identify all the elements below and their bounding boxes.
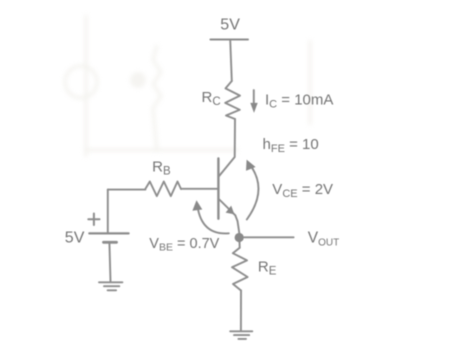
VCE arrowhead bbox=[246, 160, 256, 171]
svg-text:RB: RB bbox=[152, 159, 171, 178]
ghost bleed-through artifacts bbox=[65, 15, 310, 157]
VBE arc arrow bbox=[198, 207, 229, 234]
battery plus sign bbox=[88, 214, 99, 226]
resistor RE bbox=[232, 248, 248, 291]
wire rail to Rc bbox=[230, 40, 232, 82]
emitter arrowhead bbox=[226, 206, 235, 215]
wire Rc to collector bbox=[219, 119, 235, 177]
svg-text:hFE = 10: hFE = 10 bbox=[263, 136, 319, 155]
ground (RE) bbox=[230, 331, 252, 339]
resistor RB bbox=[145, 182, 181, 197]
Ic arrow bbox=[253, 90, 255, 104]
wire node to RE bbox=[239, 242, 241, 248]
svg-text:5V: 5V bbox=[65, 230, 85, 247]
svg-text:VBE = 0.7V: VBE = 0.7V bbox=[149, 236, 219, 254]
node dot bbox=[235, 233, 244, 242]
5V supply rail bbox=[210, 39, 248, 41]
wire emitter to node bbox=[235, 215, 239, 233]
transistor emitter bbox=[219, 200, 235, 216]
svg-text:VOUT: VOUT bbox=[308, 229, 339, 248]
wire base bbox=[108, 189, 146, 191]
svg-text:RE: RE bbox=[258, 259, 277, 278]
svg-text:IC = 10mA: IC = 10mA bbox=[265, 91, 333, 110]
wire RE to ground bbox=[240, 291, 242, 331]
Ic arrowhead bbox=[250, 103, 257, 113]
ground (battery) bbox=[99, 282, 122, 290]
wire RB to base bbox=[181, 188, 218, 190]
VCE arc arrow bbox=[247, 164, 259, 220]
wire battery to ground bbox=[109, 242, 110, 281]
transistor Q1 base bar bbox=[217, 159, 219, 219]
battery V1 plates bbox=[89, 232, 128, 234]
VBE arrowhead bbox=[192, 200, 202, 211]
svg-text:RC: RC bbox=[202, 89, 221, 108]
svg-text:5V: 5V bbox=[220, 17, 240, 34]
wire battery top bbox=[107, 190, 109, 234]
svg-text:VCE = 2V: VCE = 2V bbox=[272, 181, 333, 200]
resistor RC bbox=[225, 81, 240, 119]
wire node to output bbox=[244, 236, 294, 238]
